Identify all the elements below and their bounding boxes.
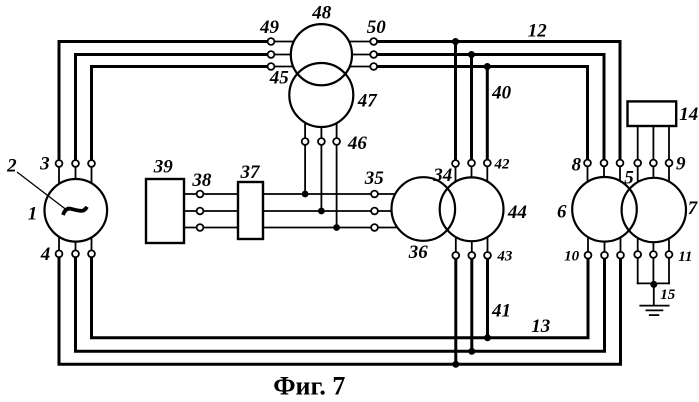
transformer 48 body fill <box>291 24 352 85</box>
wire stub gen bottom b <box>75 235 77 254</box>
wire bottom bus mid: gen terminal 4b down, right, up to terminal 10b <box>76 255 605 351</box>
wire thick vertical from top bus to terminal 34 <box>454 42 457 164</box>
wire bottom bus inner: gen terminal 4c down, right, up to terminal 10a <box>92 255 589 338</box>
wire ground collector bar <box>638 282 669 284</box>
terminal 9a <box>634 160 641 167</box>
svg-text:35: 35 <box>364 168 385 189</box>
wire stub machine 6 to terminal 10c <box>620 228 622 255</box>
leader line for label 2 <box>17 172 66 210</box>
terminal 35a <box>371 191 378 198</box>
wire stub terminal 42c into machine 44 <box>486 164 488 190</box>
wire middle chain row2 <box>184 210 410 212</box>
terminal 42c <box>484 160 491 167</box>
wire rect14 lead b through terminal 9b into machine 7 <box>652 126 654 185</box>
terminal 10a <box>585 252 592 259</box>
svg-text:Фиг. 7: Фиг. 7 <box>273 372 345 401</box>
machine 6 body fill <box>572 177 637 242</box>
rectangle 14 <box>628 101 677 126</box>
terminal 9c <box>666 160 673 167</box>
wire bus top phase1: 50a right, corner, down to terminal 8c <box>374 42 620 165</box>
terminal 4c <box>88 250 95 257</box>
svg-text:8: 8 <box>572 154 582 175</box>
wire middle chain row3 <box>184 227 410 229</box>
svg-text:45: 45 <box>269 68 290 89</box>
rectangle 37 <box>238 182 263 239</box>
wire stub terminal 8c into machine 6 <box>619 164 621 192</box>
transformer 47 body fill <box>289 63 353 127</box>
wire stub machine 44 to terminal 43a <box>455 230 457 255</box>
terminal 43a <box>452 252 459 259</box>
terminal 8a <box>584 160 591 167</box>
wire stub gen bottom c <box>91 228 93 254</box>
ground symbol 15 <box>639 306 669 316</box>
svg-text:48: 48 <box>311 3 332 24</box>
svg-text:36: 36 <box>408 242 429 263</box>
svg-text:11: 11 <box>678 249 692 265</box>
svg-text:13: 13 <box>531 316 550 337</box>
svg-text:1: 1 <box>28 203 38 224</box>
terminal 43b <box>468 252 475 259</box>
wire stub gen top a <box>58 164 60 192</box>
terminal 4b <box>72 250 79 257</box>
wire transformer 47 lead c through terminal 46c <box>336 112 338 228</box>
wire thin transformer 48 to 50c <box>345 66 374 68</box>
terminal 42b <box>468 160 475 167</box>
terminal 49a/45a <box>268 38 275 45</box>
wire thin transformer 48 to 50b <box>335 54 374 56</box>
wire thick vertical terminal 43a down to bottom bus <box>454 256 457 364</box>
terminal 38a <box>197 191 204 198</box>
svg-text:9: 9 <box>676 154 686 175</box>
tilde inside generator 1 <box>63 207 87 215</box>
terminal 50a <box>370 38 377 45</box>
terminal 11b <box>650 251 657 258</box>
terminal 3a <box>56 160 63 167</box>
terminal 38c <box>197 224 204 231</box>
transformer 48 <box>291 24 352 85</box>
svg-text:12: 12 <box>528 21 548 42</box>
wire stub gen bottom a <box>58 228 60 254</box>
svg-text:42: 42 <box>494 157 511 173</box>
wire stub terminal 8b into machine 6 <box>603 164 605 185</box>
junction dot bottom bus / 43c <box>484 334 491 341</box>
generator 1 <box>45 179 108 242</box>
junction dot ground node 15 <box>650 281 657 288</box>
transformer 47 <box>289 63 353 127</box>
terminal 3b <box>72 160 79 167</box>
svg-text:38: 38 <box>191 170 212 191</box>
svg-text:47: 47 <box>357 90 379 111</box>
junction dot mid bus / 42b column <box>468 51 475 58</box>
rectangle 39 <box>146 179 184 243</box>
wire stub terminal 42b into machine 44 <box>471 164 473 185</box>
wire thick vertical terminal 43b down to bottom bus <box>470 256 473 351</box>
terminal 8b <box>601 160 608 167</box>
terminal 50b <box>370 51 377 58</box>
svg-text:50: 50 <box>367 17 387 38</box>
wire transformer 47 lead a through terminal 46a <box>304 110 306 194</box>
terminal 50c <box>370 63 377 70</box>
wire bus top phase3 inner: gen terminal 3c up, right to 45c <box>92 67 272 166</box>
wire stub terminal 34 into machine 44 <box>455 164 457 190</box>
terminal 35c <box>371 224 378 231</box>
machine 6 <box>572 177 637 242</box>
machine 7 <box>622 178 686 242</box>
svg-text:7: 7 <box>688 198 699 219</box>
terminal 43c <box>484 252 491 259</box>
machine 44 <box>440 177 504 241</box>
wire machine 7 to terminal 11c and down <box>668 230 670 283</box>
terminal 10b <box>601 252 608 259</box>
wire stub machine 6 to terminal 10b <box>604 235 606 255</box>
svg-text:2: 2 <box>6 155 17 176</box>
terminal 46a <box>302 138 309 145</box>
wire stub machine 44 to terminal 43b <box>471 235 473 255</box>
terminal 45b <box>268 51 275 58</box>
terminal 34 <box>452 160 459 167</box>
terminal 11a <box>634 251 641 258</box>
wire thin transformer 48 right edge to 50a <box>335 41 374 43</box>
wire rect14 lead a through terminal 9a into machine 7 <box>637 126 639 192</box>
machine 44 body fill <box>440 177 504 241</box>
machine 36 <box>392 177 456 241</box>
wire thin 45b to transformer 48 <box>271 54 310 56</box>
wire bus top phase3: 50c right, corner, down to terminal 8a <box>374 67 588 165</box>
wire stub gen top b <box>75 164 77 185</box>
generator 1 body fill <box>45 179 108 242</box>
terminal 45c <box>268 63 275 70</box>
machine 7 body fill <box>622 178 686 242</box>
wire thin 49a to transformer 48 left edge <box>271 41 310 43</box>
wire bus top phase2: 50b right, corner, down to terminal 8b <box>374 55 604 165</box>
junction dot top bus / 34 column <box>452 38 459 45</box>
wire bus top phase2 mid: gen terminal 3b up, right to 49b <box>76 55 272 166</box>
wire machine 7 to terminal 11a and down <box>637 230 639 283</box>
terminal 4a <box>56 250 63 257</box>
svg-text:4: 4 <box>40 244 51 265</box>
wire ground stem <box>653 283 655 305</box>
terminal 38b <box>197 208 204 215</box>
svg-text:34: 34 <box>432 165 452 186</box>
terminal 11c <box>666 251 673 258</box>
wire thick vertical from top bus to terminal 42c <box>486 67 489 164</box>
wire stub terminal 8a into machine 6 <box>587 164 589 192</box>
svg-text:6: 6 <box>557 202 567 223</box>
svg-text:15: 15 <box>660 287 676 303</box>
wire stub gen top c <box>91 164 93 192</box>
svg-text:46: 46 <box>347 133 368 154</box>
junction dot bottom bus / 43a <box>452 361 459 368</box>
svg-text:43: 43 <box>496 248 513 264</box>
terminal 9b <box>650 160 657 167</box>
svg-text:10: 10 <box>564 249 580 265</box>
junction dot middle row3 / 46c <box>333 224 340 231</box>
junction dot inner bus / 42c column <box>484 63 491 70</box>
terminal 35b <box>371 208 378 215</box>
svg-text:5: 5 <box>624 167 634 188</box>
terminal 46c <box>333 138 340 145</box>
wire stub machine 44 to terminal 43c <box>487 230 489 255</box>
wire thick vertical terminal 43c down to bottom bus <box>486 256 489 338</box>
wire bus top phase1 outer: gen terminal 3a up, right to 49a <box>59 42 271 166</box>
wire bottom bus outer: gen terminal 4a down, right, up to terminal 10c <box>59 255 621 364</box>
svg-text:40: 40 <box>491 83 512 104</box>
wire stub machine 6 to terminal 10a <box>587 228 589 255</box>
wire transformer 47 lead b through terminal 46b <box>320 120 322 211</box>
svg-text:49: 49 <box>259 17 280 38</box>
svg-text:3: 3 <box>39 154 50 175</box>
terminal 3c <box>88 160 95 167</box>
svg-text:44: 44 <box>507 202 527 223</box>
wire rect14 lead c through terminal 9c into machine 7 <box>668 126 670 192</box>
svg-text:41: 41 <box>491 301 511 322</box>
junction dot bottom bus / 43b <box>468 348 475 355</box>
svg-text:14: 14 <box>679 104 698 125</box>
wire middle chain row1 <box>184 193 410 195</box>
terminal circles <box>56 38 673 259</box>
svg-text:37: 37 <box>240 162 262 183</box>
wire thick vertical from top bus to terminal 42b <box>470 55 473 164</box>
terminal 8c <box>617 160 624 167</box>
svg-text:39: 39 <box>153 156 174 177</box>
machine 36 body fill <box>392 177 456 241</box>
terminal 10c <box>617 252 624 259</box>
wire machine 7 to terminal 11b and down <box>652 240 654 283</box>
wire thin 45c to transformer 48 <box>271 66 300 68</box>
terminal 46b <box>318 138 325 145</box>
junction dot middle row2 / 46b <box>318 208 325 215</box>
junction dot middle row1 / 46a <box>302 191 309 198</box>
